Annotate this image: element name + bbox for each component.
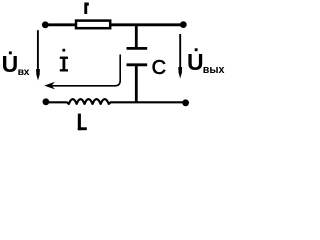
wire capacitor bottom lead — [135, 65, 138, 103]
wire bottom with inductor L coil — [45, 99, 186, 104]
svg-text:C: C — [152, 57, 166, 79]
arrow Uout (output voltage, down) — [178, 34, 182, 79]
label L — [78, 114, 87, 131]
svg-text:вх: вх — [18, 66, 30, 78]
label U_out (U dot vyx) — [187, 48, 224, 76]
node right-bottom terminal dot — [182, 99, 189, 106]
capacitor C top plate — [127, 47, 148, 50]
svg-text:вых: вых — [203, 64, 225, 76]
node left-bottom terminal dot — [43, 98, 50, 105]
svg-text:U: U — [2, 51, 19, 77]
wire capacitor top lead — [135, 25, 138, 49]
wire top horizontal — [44, 23, 184, 26]
arrow Uin (input voltage, down) — [36, 30, 40, 80]
label U_in (U dot vx) — [2, 51, 30, 78]
svg-text:U: U — [187, 49, 204, 75]
arrow current I (hooked arrow pointing left) — [44, 55, 120, 90]
node left-top terminal dot — [42, 21, 49, 28]
node right-top terminal dot — [180, 21, 187, 28]
capacitor C bottom plate — [127, 63, 148, 66]
label r — [84, 3, 88, 15]
resistor r body — [76, 21, 110, 29]
label I (current, serif I with dot) — [60, 49, 68, 72]
